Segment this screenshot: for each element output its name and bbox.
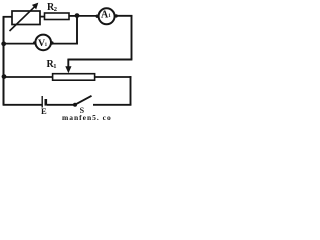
wire ammeter to right corner [115, 15, 132, 17]
svg-text:1: 1 [53, 63, 56, 70]
wire R1 to right rail [95, 76, 132, 78]
battery E [41, 96, 47, 116]
rheostat R1 wiper arrow [65, 59, 71, 74]
wire top left [3, 16, 13, 18]
wire switch to battery [47, 104, 74, 106]
voltmeter V [33, 35, 54, 51]
wire R2 to node J1 [69, 15, 77, 17]
ammeter A [96, 8, 118, 24]
variable resistor (box with diagonal arrow) [10, 3, 41, 31]
resistor R1 (rheostat body) [47, 59, 95, 80]
svg-text:manfen5. co: manfen5. co [62, 113, 112, 122]
resistor R2 [45, 2, 70, 20]
wire right rail upper [131, 15, 133, 59]
wire box to R2 [40, 16, 45, 18]
wire wiper line [68, 59, 132, 61]
wire voltmeter to vertical [52, 43, 78, 45]
node on left rail for voltmeter [1, 41, 6, 46]
svg-text:E: E [41, 106, 47, 116]
wire right rail lower [130, 76, 132, 105]
node J1 (junction dot) [75, 13, 80, 18]
wire bottom rail right [93, 104, 131, 106]
wire battery to left rail [3, 104, 42, 106]
wire left rail to voltmeter [4, 43, 35, 45]
wire vertical up to J1 [76, 16, 78, 45]
svg-text:2: 2 [54, 6, 57, 13]
switch S [73, 96, 92, 115]
wire J1 to ammeter [77, 15, 98, 17]
wire left rail to R1 [4, 76, 53, 78]
node on left rail for R1 [2, 74, 7, 79]
wire left rail [3, 17, 5, 106]
